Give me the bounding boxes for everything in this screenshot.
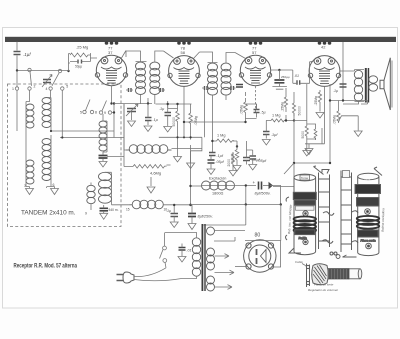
wire cathode T4 [305, 87, 325, 144]
svg-text:5: 5 [66, 85, 68, 89]
svg-text:5000: 5000 [301, 131, 305, 139]
resistor R1Mg-h [271, 119, 287, 122]
svg-text:80: 80 [255, 233, 261, 239]
capacitor C-b2 [250, 156, 257, 159]
svg-text:8: 8 [95, 111, 97, 115]
svg-text:2000: 2000 [227, 159, 231, 167]
IFT2 secondary [221, 63, 231, 95]
wire L3b tangent [105, 172, 112, 205]
can2 bracket left [341, 171, 352, 253]
wire choke1 right [172, 148, 202, 150]
pot shaft plain [349, 269, 360, 279]
speaker [380, 58, 390, 110]
ground R-vol [303, 139, 311, 156]
can1 band B [294, 200, 315, 205]
tube V4 [308, 56, 340, 87]
node antenna RC [67, 70, 69, 72]
switch contacts 9-12 [99, 111, 102, 114]
capacitor C-s1 [165, 113, 172, 116]
wire contact1 lead [16, 90, 18, 131]
can1 foot [289, 248, 301, 253]
wire link y131 [51, 130, 114, 132]
svg-text:.05µf: .05µf [252, 158, 261, 162]
capacitor C-k1 [145, 118, 152, 121]
switch S1a arm [28, 68, 31, 71]
ground L1 [26, 187, 34, 195]
resistor R-vol [305, 124, 308, 139]
wire gang2 right risers [107, 104, 130, 205]
svg-text:.25Mg: .25Mg [314, 96, 318, 106]
capacitor C-sg2 [254, 110, 260, 113]
resistor R-avc2 [292, 99, 295, 116]
resistor R-vol2 [314, 127, 317, 140]
antenna bus bar [5, 37, 396, 42]
arrow HT2 [215, 270, 235, 275]
tube V1 [95, 55, 127, 85]
wire bus 137 [159, 137, 202, 148]
can1 bracket right [319, 170, 330, 250]
svg-text:TANDEM 2x410 m.: TANDEM 2x410 m. [21, 210, 76, 217]
svg-text:.1µ: .1µ [166, 209, 171, 213]
svg-text:8µf/500v.: 8µf/500v. [255, 191, 271, 196]
svg-text:.1µf: .1µf [271, 133, 278, 137]
wire cathode T2 down [184, 87, 246, 138]
svg-text:+: + [253, 180, 256, 185]
resistor R-sg2 [244, 98, 248, 115]
svg-text:1800Ω: 1800Ω [212, 192, 223, 196]
svg-text:1: 1 [12, 87, 14, 91]
coupling cap C34 [297, 80, 300, 84]
svg-text:250µµ: 250µµ [281, 75, 290, 79]
variable capacitor CV2 [127, 109, 136, 112]
resistor R-1Mg2 [217, 139, 235, 142]
svg-text:Punta de serie: Punta de serie [314, 283, 334, 287]
ground C-k1 [144, 126, 152, 132]
can2 terminal low [366, 243, 372, 249]
resistor R-k1 [189, 104, 193, 140]
svg-text:6: 6 [53, 183, 55, 187]
svg-text:57: 57 [252, 50, 257, 55]
capacitor C-grid1 [78, 60, 82, 64]
electrolytic C-f3 [188, 214, 196, 217]
IFT2 primary [208, 63, 218, 95]
capacitor C-f2 [171, 214, 179, 217]
can2 leads left [352, 211, 358, 243]
capacitor C-b1 [209, 153, 216, 156]
svg-text:50000: 50000 [298, 106, 302, 116]
ground L3a [99, 162, 107, 168]
switch arms gang2 [86, 100, 107, 111]
tube V2 [168, 56, 200, 87]
IFT1 primary [136, 62, 146, 94]
wire L1 tangent lead [26, 90, 30, 186]
coil L3a [99, 121, 107, 151]
shield cap dots T3 [249, 41, 263, 45]
can2 spring [357, 216, 379, 229]
switch contacts 5-8 [83, 110, 86, 113]
svg-text:.05Mg: .05Mg [240, 105, 244, 115]
grid stopper T4 [310, 61, 315, 84]
wire L3a tangent [103, 121, 107, 152]
wire choke1 left to gang2 [124, 104, 126, 150]
arrow heater [215, 285, 233, 290]
svg-text:Regulador de volumen: Regulador de volumen [308, 288, 339, 292]
wire speaker return [361, 101, 368, 105]
capacitor C-det [263, 132, 270, 135]
ground C-b2 [249, 165, 257, 171]
capacitor C-mains [179, 248, 186, 251]
svg-text:Excitación: Excitación [209, 177, 226, 181]
svg-text:Receptor R.R. Mod. 57 alterna: Receptor R.R. Mod. 57 alterna [14, 263, 78, 270]
mains plug [117, 272, 135, 283]
pot shaft threaded [328, 269, 349, 280]
coil L3c [87, 185, 95, 203]
wire IFT1 sec to grid cap T2 [164, 51, 174, 58]
wire grid bus T1 [114, 98, 152, 104]
resistor .25Mg [70, 53, 91, 57]
svg-text:37: 37 [108, 50, 113, 55]
can2 band C [358, 230, 379, 237]
svg-text:5: 5 [80, 111, 82, 115]
capacitor C-mica 250uu [274, 80, 284, 83]
can1 band C [295, 230, 315, 235]
svg-text:.1µ: .1µ [159, 107, 165, 111]
potentiometer drawing [306, 264, 361, 288]
choke RF2 [130, 204, 133, 206]
ground T4 cathode [305, 144, 313, 155]
wire IFT2 primary return [213, 95, 238, 153]
svg-text:Toma: Toma [301, 176, 308, 180]
IFT1 secondary [150, 62, 160, 94]
trimmer caps IFT1 [129, 88, 132, 92]
resistor R-avc1 [284, 94, 287, 112]
capacitor C-ant [14, 52, 21, 55]
svg-text:1 Mg: 1 Mg [272, 114, 280, 118]
can1 top lead [314, 166, 324, 175]
svg-text:4,6Mg: 4,6Mg [150, 171, 161, 176]
svg-text:Placa corta: Placa corta [361, 239, 376, 243]
can1 toma tab [300, 175, 310, 180]
wire B+ top right [330, 42, 368, 163]
mains cord [134, 268, 182, 281]
svg-text:8µf/250v.: 8µf/250v. [198, 215, 214, 219]
svg-text:.01: .01 [187, 249, 192, 253]
can1 body [294, 178, 316, 252]
can1 band A [293, 192, 316, 199]
switch contacts 4-5 [49, 87, 52, 90]
coil L2b [42, 139, 51, 181]
resistor R-fb [337, 109, 340, 123]
ground CV2 [128, 121, 136, 127]
resistor R-50k2 [235, 147, 239, 163]
svg-text:Bobina osciladora: Bobina osciladora [381, 208, 386, 232]
wire HV elbow [204, 205, 246, 226]
can2 terminal mid [365, 209, 371, 215]
capacitor C-540 [100, 208, 109, 211]
ground R-out1 [316, 105, 324, 118]
wire screen bus T1 [156, 90, 205, 137]
resistor R-46 [133, 165, 167, 169]
wire choke2 right [163, 204, 191, 206]
resistor R-out1 [318, 90, 321, 105]
variable capacitor CV1 [43, 80, 51, 83]
capacitor C-line [340, 84, 347, 87]
wire plate T3 [271, 69, 293, 71]
svg-text:Toma: Toma [364, 178, 371, 182]
switch contacts 1-2 [15, 87, 18, 90]
svg-text:.1µf: .1µf [217, 154, 224, 158]
resistor R-sg1 [176, 104, 180, 138]
choke RF1 [126, 149, 130, 151]
capacitor C-g3 [243, 158, 250, 161]
can1 terminal low [303, 239, 308, 244]
wire B+ to box [270, 186, 281, 205]
ground R-fb [354, 131, 362, 137]
svg-text:4: 4 [46, 87, 48, 91]
ground L2 [47, 187, 59, 195]
wire output loop [273, 121, 330, 187]
power transformer core [202, 224, 204, 291]
svg-text:.1µ: .1µ [153, 118, 159, 122]
resistor R-g2 [231, 152, 234, 166]
wire antenna drop [16, 42, 18, 71]
can2 top lead [374, 167, 382, 176]
svg-text:9: 9 [85, 212, 87, 216]
wire field coil left riser [191, 149, 202, 206]
dashed tandem box [8, 84, 122, 227]
wire contact5 lead [60, 90, 62, 137]
tube V3 [239, 55, 271, 85]
IF can 1 drawing [286, 166, 335, 255]
rectifier tube 80 [244, 240, 276, 272]
can2 body [358, 177, 379, 253]
can1 spring [294, 216, 316, 232]
svg-text:.5µ: .5µ [261, 111, 266, 115]
wire plate T1 to IFT1 [122, 51, 127, 59]
transformer primary [192, 238, 200, 276]
svg-text:.01: .01 [294, 74, 299, 78]
svg-text:.1µf: .1µf [23, 52, 31, 57]
switch S1b arm [58, 69, 61, 72]
ground C-mica [272, 87, 287, 90]
svg-text:9: 9 [104, 111, 106, 115]
svg-text:58: 58 [181, 50, 186, 55]
output transformer core [365, 68, 367, 103]
wire rect box [245, 241, 281, 268]
svg-text:50µµ: 50µµ [75, 65, 82, 69]
svg-text:.25 Mg: .25 Mg [76, 45, 88, 50]
svg-text:.05Mg: .05Mg [333, 115, 337, 125]
ground R-sg1 [174, 137, 182, 162]
can mounting screws [330, 252, 333, 255]
pot bracket [307, 264, 310, 288]
coil L1b [26, 160, 34, 184]
can1 lead squiggle left [286, 197, 290, 240]
ground R-g2 [229, 171, 237, 177]
can2 band A [355, 185, 381, 194]
IF can 2 drawing [336, 167, 382, 258]
can1 terminal mid [303, 211, 308, 216]
svg-text:42: 42 [321, 45, 326, 50]
can2 foot [336, 255, 356, 259]
ground C-f2 [170, 222, 178, 228]
wire antenna to switch [17, 70, 58, 72]
shield cap dots T1 [105, 41, 119, 45]
capacitor C-g2 [208, 160, 215, 163]
trimmer caps IFT2 [205, 86, 208, 90]
wire IFT2 sec to grid cap T3 [235, 53, 246, 59]
wire tandem left riser [16, 71, 18, 87]
can2 band B [357, 198, 380, 207]
switch mains [164, 233, 166, 247]
svg-text:.05µf: .05µf [216, 160, 225, 164]
wire plate T2 to IFT2 [194, 52, 200, 59]
ground L3b (arrow) [100, 211, 108, 219]
coil L3b [99, 172, 112, 203]
ground C-mains [178, 257, 186, 263]
coil L2a [42, 98, 51, 128]
wire cathode T1 down [111, 86, 113, 104]
svg-text:.25Mg: .25Mg [281, 102, 285, 112]
wire link y137 [62, 137, 124, 139]
capacitor C-pad [99, 156, 108, 159]
svg-text:50000: 50000 [172, 117, 176, 127]
svg-text:1 Mg: 1 Mg [217, 134, 225, 138]
ground C-g2 [207, 169, 215, 175]
wire L2 tangent lead [47, 90, 52, 186]
shield cap dots T2 [177, 41, 191, 45]
ground C-f3 (arrow) [188, 222, 196, 230]
capacitor C-k3 [236, 85, 243, 88]
svg-text:.1µ: .1µ [333, 89, 338, 93]
svg-text:.02Mg: .02Mg [194, 116, 198, 126]
arrow HT [215, 254, 230, 259]
can1 white band [296, 206, 315, 210]
can1 lead squiggle right [323, 212, 334, 216]
svg-text:Cable: Cable [295, 260, 303, 264]
field coil 1800ohm [196, 185, 202, 187]
ground R-k1 [187, 145, 195, 169]
svg-text:2: 2 [34, 85, 36, 89]
wire sg2 bus [246, 92, 257, 119]
transformer secondary HV [207, 227, 215, 291]
shield cap dots T4 [318, 41, 332, 45]
arrow heater 80 [214, 231, 245, 242]
wire B+ rail [191, 204, 281, 206]
voice coil [369, 76, 378, 91]
ground C-s1 [164, 127, 172, 133]
coil L1a [26, 104, 34, 128]
ground C-det [262, 140, 270, 146]
svg-text:540 m.: 540 m. [109, 208, 119, 212]
output transformer primary [354, 70, 362, 101]
wire shield T3 [255, 86, 257, 113]
pot body [312, 264, 329, 285]
wire can lead to schematic [284, 163, 294, 174]
ground R-46 [147, 187, 155, 193]
wire avc risers [286, 88, 294, 121]
svg-text:3: 3 [24, 184, 26, 188]
svg-text:15: 15 [126, 208, 130, 212]
